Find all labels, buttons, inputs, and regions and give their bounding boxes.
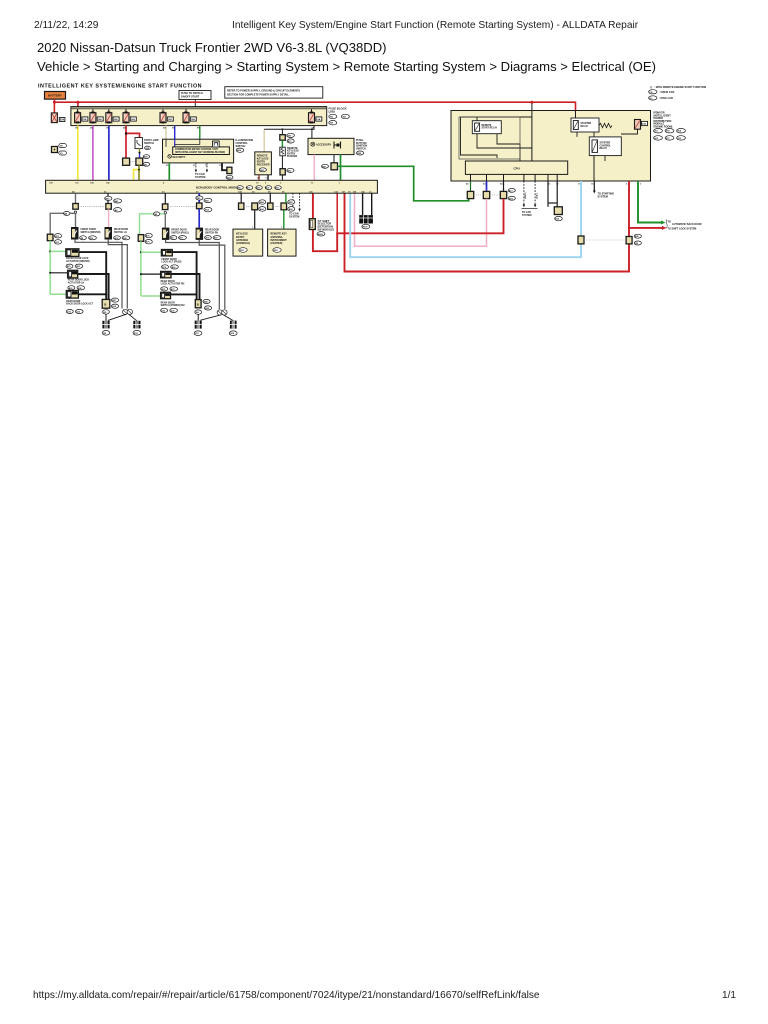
- svg-text:REAR DOOR: REAR DOOR: [66, 300, 80, 303]
- svg-text:M203: M203: [318, 234, 324, 236]
- svg-text:FRONT DOOR: FRONT DOOR: [171, 230, 187, 232]
- svg-text:〈〉 : WITH REMOTE ENGINE START: 〈〉 : WITH REMOTE ENGINE START FUNCTION: [649, 85, 707, 89]
- svg-text:SWITCH RH: SWITCH RH: [205, 232, 218, 234]
- svg-text:3: 3: [640, 183, 642, 185]
- svg-text:REAR DOOR: REAR DOOR: [114, 228, 128, 231]
- svg-text:(CONSOLE): (CONSOLE): [236, 242, 250, 245]
- svg-text:ACCESSORY: ACCESSORY: [316, 143, 331, 146]
- svg-text:COMBINATION METER CONTROL UNIT: COMBINATION METER CONTROL UNIT: [175, 148, 219, 151]
- svg-text:: KING CAB: : KING CAB: [659, 97, 673, 100]
- svg-text:: CREW CAB: : CREW CAB: [659, 91, 674, 94]
- svg-text:TO SHIFT LOCK SYSTEM: TO SHIFT LOCK SYSTEM: [668, 228, 697, 231]
- svg-text:FRONT DOOR LOCK: FRONT DOOR LOCK: [66, 258, 89, 260]
- svg-text:10A: 10A: [316, 118, 320, 121]
- svg-text:REAR DOOR LOCK: REAR DOOR LOCK: [68, 279, 90, 282]
- svg-text:TO CAN: TO CAN: [522, 211, 531, 214]
- svg-text:6B: 6B: [172, 128, 175, 130]
- svg-text:48: 48: [466, 182, 469, 185]
- svg-text:ACTUATOR (DRIVER): ACTUATOR (DRIVER): [66, 260, 90, 263]
- svg-text:SWITCH (DRIVER): SWITCH (DRIVER): [81, 232, 101, 234]
- svg-text:REAR DOOR: REAR DOOR: [205, 229, 219, 232]
- svg-text:TO: TO: [668, 220, 671, 223]
- svg-text:START RELAY: START RELAY: [482, 127, 498, 130]
- svg-text:SWITCH: SWITCH: [144, 142, 154, 145]
- svg-text:(WITH INTELLIGENT KEY WARNING: (WITH INTELLIGENT KEY WARNING BUZZER): [175, 151, 225, 154]
- svg-text:ON/OFF START: ON/OFF START: [181, 96, 200, 99]
- svg-text:REMOTE: REMOTE: [482, 125, 492, 127]
- svg-text:LOCK ACT (PASS): LOCK ACT (PASS): [161, 261, 181, 264]
- svg-text:10A: 10A: [131, 118, 135, 121]
- svg-text:4B: 4B: [123, 127, 126, 130]
- svg-text:REAR DOOR: REAR DOOR: [161, 280, 175, 283]
- svg-text:SWITCH (POWER) RH: SWITCH (POWER) RH: [161, 305, 185, 307]
- svg-text:4: 4: [626, 182, 628, 185]
- svg-text:B: B: [197, 303, 199, 307]
- svg-text:SECTION FOR COMPLETE POWER SUP: SECTION FOR COMPLETE POWER SUPPLY DETAIL…: [227, 93, 290, 96]
- svg-text:SWITCH LH: SWITCH LH: [114, 232, 127, 234]
- svg-text:20A: 20A: [642, 123, 646, 126]
- svg-text:3B: 3B: [106, 128, 109, 130]
- svg-text:2B: 2B: [90, 128, 93, 130]
- svg-text:SECURITY: SECURITY: [172, 155, 185, 159]
- svg-text:13: 13: [205, 165, 208, 167]
- svg-text:SW MODULE): SW MODULE): [318, 228, 335, 231]
- svg-text:80A: 80A: [60, 119, 65, 122]
- svg-text:RECEIVER: RECEIVER: [257, 164, 270, 167]
- svg-text:10A: 10A: [114, 118, 118, 121]
- svg-text:10A: 10A: [98, 118, 102, 121]
- svg-text:SYSTEM: SYSTEM: [598, 195, 608, 198]
- svg-text:CAN-L: CAN-L: [535, 192, 538, 199]
- svg-text:10A: 10A: [191, 118, 195, 121]
- svg-text:FRONT DOOR: FRONT DOOR: [161, 259, 177, 261]
- svg-text:(CENTER): (CENTER): [270, 242, 282, 245]
- svg-text:BCM (BODY CONTROL MODULE): BCM (BODY CONTROL MODULE): [196, 186, 242, 190]
- svg-text:SYSTEM: SYSTEM: [522, 215, 532, 217]
- svg-text:SWITCH: SWITCH: [236, 145, 246, 148]
- svg-text:STARTER: STARTER: [600, 142, 611, 145]
- svg-text:BATTERY: BATTERY: [48, 94, 62, 98]
- svg-text:INTELLIGENT KEY SYSTEM/ENGINE: INTELLIGENT KEY SYSTEM/ENGINE START FUNC…: [38, 84, 202, 90]
- svg-text:AUTOMATIC BACK DOOR: AUTOMATIC BACK DOOR: [672, 223, 702, 226]
- svg-text:15A: 15A: [82, 118, 86, 121]
- svg-text:RELAY: RELAY: [600, 147, 608, 150]
- svg-text:1B: 1B: [75, 128, 78, 130]
- svg-text:ENGINE ROOM): ENGINE ROOM): [654, 126, 673, 129]
- svg-text:REAR DOOR: REAR DOOR: [161, 301, 175, 304]
- svg-text:BACK DOOR LOCK ACT: BACK DOOR LOCK ACT: [66, 303, 93, 306]
- svg-text:5B: 5B: [163, 128, 166, 130]
- svg-text:RELAY: RELAY: [581, 125, 589, 128]
- svg-text:54: 54: [500, 182, 503, 185]
- svg-text:LOCK ACTUATOR RH: LOCK ACTUATOR RH: [161, 283, 185, 286]
- svg-text:SWITCH: SWITCH: [356, 147, 366, 150]
- svg-text:10A: 10A: [168, 118, 172, 121]
- svg-text:SWITCH (PASS): SWITCH (PASS): [171, 231, 189, 234]
- svg-text:CPU: CPU: [514, 166, 520, 170]
- svg-text:M107: M107: [363, 227, 369, 229]
- svg-text:(J/B): (J/B): [329, 110, 335, 114]
- svg-text:CONTROL: CONTROL: [600, 145, 612, 147]
- svg-text:FRONT DOOR: FRONT DOOR: [81, 229, 97, 231]
- svg-text:ACTUATOR LH: ACTUATOR LH: [68, 282, 85, 285]
- svg-text:SYSTEM: SYSTEM: [195, 176, 205, 179]
- svg-text:SYSTEM: SYSTEM: [289, 215, 299, 218]
- svg-text:REFER TO POWER SUPPLY, GROUND: REFER TO POWER SUPPLY, GROUND & CIRCUIT …: [227, 89, 300, 92]
- svg-text:CAN-H: CAN-H: [524, 192, 527, 199]
- svg-text:STARTER: STARTER: [581, 122, 592, 125]
- svg-text:BUZZER: BUZZER: [287, 155, 297, 158]
